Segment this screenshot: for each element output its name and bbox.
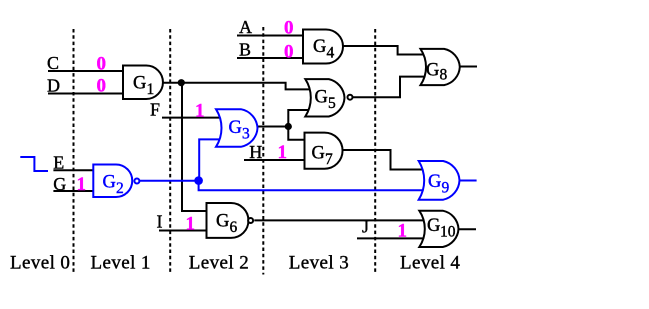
wire G1 output to junction xyxy=(163,82,181,84)
wire G3 junction up to G5 bottom input xyxy=(288,110,311,127)
nor-gate G5 xyxy=(305,79,344,116)
nand-gate G6 xyxy=(207,203,249,238)
svg-text:G: G xyxy=(427,216,440,236)
svg-text:A: A xyxy=(239,17,252,37)
svg-text:G: G xyxy=(428,172,441,192)
wire G9 output xyxy=(459,180,477,182)
svg-text:B: B xyxy=(239,40,251,60)
and-gate G7 xyxy=(305,133,343,169)
svg-text:7: 7 xyxy=(325,151,333,168)
svg-text:I: I xyxy=(157,211,163,231)
wire input D to G1 xyxy=(48,93,123,95)
svg-text:G: G xyxy=(426,61,439,81)
svg-text:1: 1 xyxy=(278,142,288,163)
bubble on G5 output xyxy=(348,95,353,100)
svg-text:Level 1: Level 1 xyxy=(91,253,151,274)
svg-text:1: 1 xyxy=(77,174,87,195)
svg-text:9: 9 xyxy=(442,180,450,197)
wire G6 output to G10 top input xyxy=(254,219,426,221)
svg-text:0: 0 xyxy=(97,76,107,97)
svg-text:G: G xyxy=(133,74,146,94)
wire G8 output xyxy=(460,66,478,68)
svg-text:G: G xyxy=(103,173,116,193)
svg-text:0: 0 xyxy=(97,53,107,74)
wire G1 junction down to G6 top input xyxy=(182,83,207,211)
or-gate G9 (blue) xyxy=(419,161,460,200)
svg-text:E: E xyxy=(53,153,64,173)
dashed level boundary line 1 (Level 0/1) xyxy=(73,29,75,275)
svg-text:1: 1 xyxy=(147,81,155,98)
wire input G to G2 xyxy=(53,190,94,192)
svg-text:Level 4: Level 4 xyxy=(400,253,460,274)
svg-text:G: G xyxy=(216,212,229,232)
svg-text:H: H xyxy=(249,142,262,162)
svg-text:2: 2 xyxy=(116,180,124,197)
svg-text:5: 5 xyxy=(328,95,336,112)
svg-text:F: F xyxy=(150,100,160,120)
wire input F to G3 xyxy=(162,117,222,119)
svg-text:G: G xyxy=(229,118,242,138)
waveform symbol on input E (falling step, blue) xyxy=(20,157,48,171)
svg-text:0: 0 xyxy=(284,42,294,63)
bubble on G2 output xyxy=(134,179,139,184)
wire G3 output to junction xyxy=(256,126,288,128)
dashed level boundary line 4 (Level 3/4) xyxy=(374,29,376,275)
svg-text:4: 4 xyxy=(327,45,335,62)
wire input C to G1 xyxy=(48,70,123,72)
dashed level boundary line 2 (Level 1/2) xyxy=(169,29,171,275)
wire blue junction to G9 bottom input xyxy=(199,181,426,191)
svg-text:G: G xyxy=(53,174,66,194)
wire blue junction up to G3 bottom input xyxy=(199,139,222,180)
svg-text:Level 0: Level 0 xyxy=(10,253,70,274)
junction at G1 output xyxy=(178,79,185,86)
svg-text:G: G xyxy=(312,144,325,164)
svg-text:6: 6 xyxy=(230,219,238,236)
or-gate G10 xyxy=(419,211,458,247)
svg-text:Level 2: Level 2 xyxy=(189,253,249,274)
wire G10 output xyxy=(458,228,476,230)
wire input H to G7 xyxy=(244,159,305,161)
svg-text:C: C xyxy=(47,53,59,73)
svg-text:1: 1 xyxy=(186,213,196,234)
svg-text:0: 0 xyxy=(284,18,294,39)
or-gate G8 xyxy=(421,49,460,85)
svg-text:J: J xyxy=(362,217,369,237)
wire G5 output to G8 bottom input xyxy=(353,77,426,98)
wire G2 output to blue junction xyxy=(140,180,199,182)
wire input J to G10 xyxy=(357,237,426,239)
bubble on G6 output xyxy=(248,218,253,223)
wire input I to G6 xyxy=(159,230,207,232)
nand-gate G2 (blue) xyxy=(93,165,132,198)
wire G7 output to G9 top input xyxy=(343,150,426,170)
wire G4 output to G8 top input xyxy=(343,46,426,55)
wire G3 junction down to G7 top input xyxy=(288,127,305,140)
svg-text:G: G xyxy=(313,37,326,57)
and-gate G1 xyxy=(123,66,163,100)
svg-text:10: 10 xyxy=(440,224,456,241)
svg-text:1: 1 xyxy=(195,101,205,122)
svg-text:3: 3 xyxy=(242,126,250,143)
or-gate G3 (blue) xyxy=(216,109,258,147)
junction at G2 output (blue) xyxy=(194,176,203,185)
wire G1 junction to G5 top input xyxy=(181,83,311,90)
wire input B to G4 xyxy=(237,57,303,59)
svg-text:8: 8 xyxy=(440,67,448,84)
wire input E to G2 xyxy=(53,169,94,171)
junction at G3 output xyxy=(285,123,292,130)
dashed level boundary line 3 (Level 2/3) xyxy=(262,27,264,275)
and-gate G4 xyxy=(303,30,343,64)
svg-text:Level 3: Level 3 xyxy=(289,253,349,274)
svg-text:G: G xyxy=(315,88,328,108)
svg-text:D: D xyxy=(47,76,60,96)
wire input A to G4 xyxy=(237,35,303,37)
svg-text:1: 1 xyxy=(398,221,408,242)
